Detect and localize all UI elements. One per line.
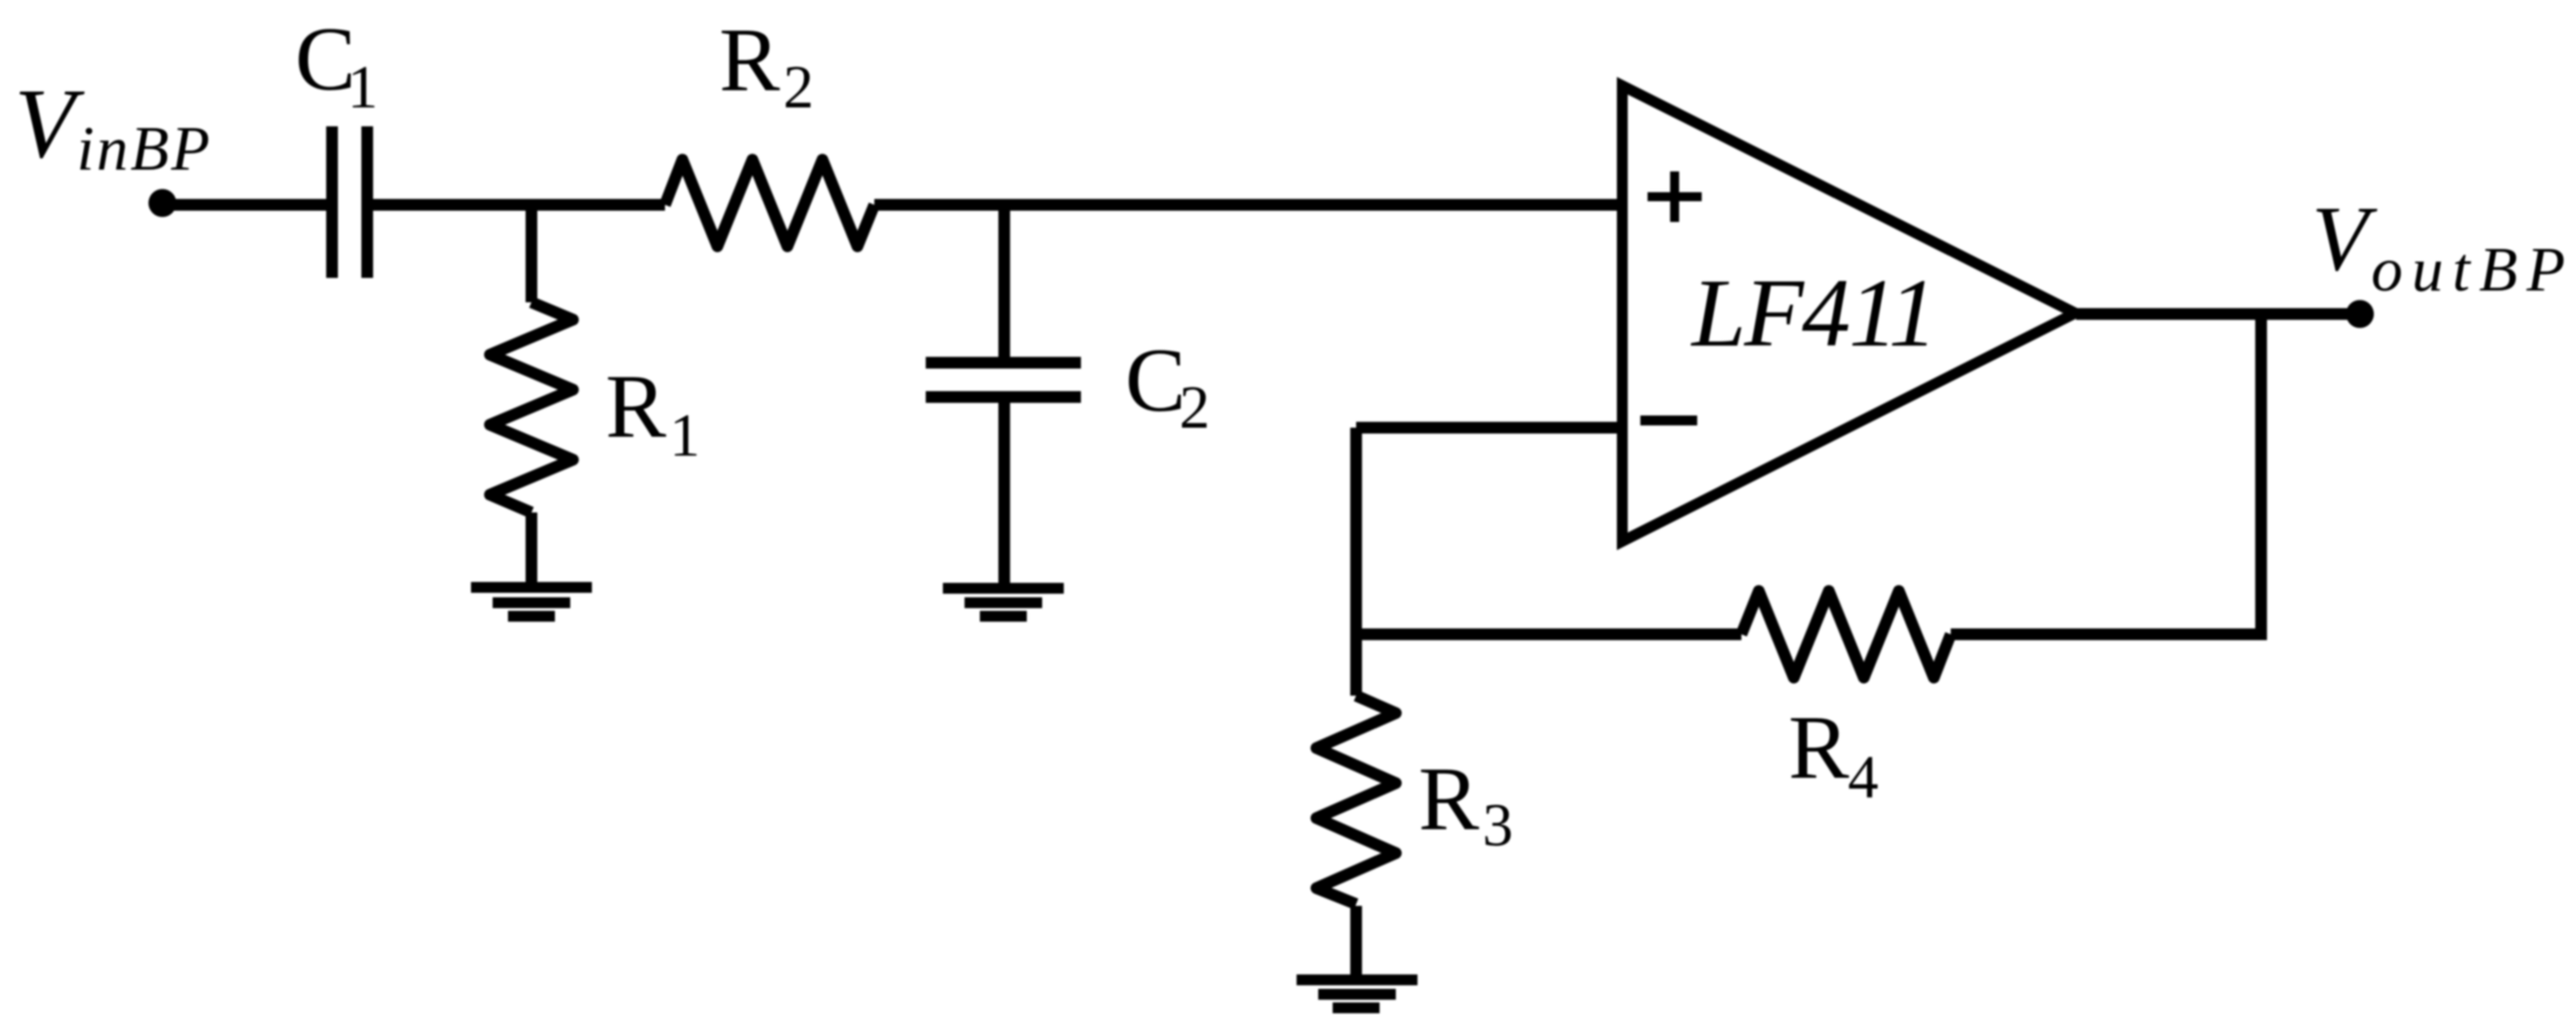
svg-text:R: R: [1418, 748, 1480, 849]
svg-text:3: 3: [1482, 790, 1513, 859]
resistor R4: [1741, 591, 1951, 678]
svg-text:outBP: outBP: [2371, 235, 2574, 305]
svg-text:LF411: LF411: [1690, 260, 1935, 367]
svg-text:V: V: [14, 69, 85, 179]
svg-text:1: 1: [669, 401, 700, 469]
pin + symbol: [1648, 171, 1702, 222]
op-amp U1 LF411 triangle: [1622, 86, 2075, 541]
capacitor C1: [332, 126, 367, 278]
svg-text:inBP: inBP: [77, 115, 212, 184]
label Vin: [14, 69, 212, 184]
wire C1 to R2: [373, 199, 665, 211]
wire feedback node to R4: [1356, 629, 1741, 641]
node Vout terminal dot: [2346, 300, 2374, 328]
capacitor C2: [926, 363, 1081, 397]
ground under C2: [943, 588, 1064, 616]
wire feedback vertical: [2256, 314, 2267, 641]
svg-text:C: C: [1125, 329, 1186, 430]
ground under R3: [1297, 980, 1417, 1008]
wire R1 bottom lead: [526, 512, 538, 583]
label Vout: [2312, 188, 2574, 305]
wire inverting input vertical: [1351, 428, 1362, 641]
label R4: [1788, 697, 1879, 811]
label R2: [719, 9, 814, 121]
wire R3 top lead: [1351, 634, 1362, 696]
svg-text:4: 4: [1848, 743, 1879, 811]
resistor R2: [665, 160, 874, 246]
wire R3 bottom lead: [1351, 906, 1362, 974]
wire output: [2076, 309, 2359, 320]
wire C2 top lead: [999, 205, 1011, 357]
wire inverting input horizontal: [1356, 422, 1623, 434]
pin - symbol: [1640, 416, 1697, 426]
node Vin terminal dot: [149, 189, 177, 217]
wire R4 to output corner: [1951, 629, 2267, 641]
svg-text:R: R: [719, 9, 780, 110]
resistor R3: [1316, 696, 1396, 904]
label C1: [295, 8, 378, 121]
wire input to C1: [163, 199, 328, 211]
wire C2 bottom lead: [999, 402, 1011, 584]
label R3: [1418, 748, 1513, 859]
svg-text:2: 2: [1179, 373, 1210, 441]
ground under R1: [471, 587, 592, 616]
label R1: [605, 355, 700, 469]
svg-text:V: V: [2312, 188, 2377, 291]
wire R1 top lead: [526, 205, 538, 302]
svg-text:R: R: [1788, 697, 1850, 798]
wire R2 to op-amp: [874, 199, 1623, 211]
svg-text:R: R: [605, 355, 667, 457]
svg-text:1: 1: [347, 52, 378, 121]
resistor R1: [490, 302, 573, 512]
svg-text:2: 2: [783, 52, 814, 121]
label C2: [1125, 329, 1210, 441]
